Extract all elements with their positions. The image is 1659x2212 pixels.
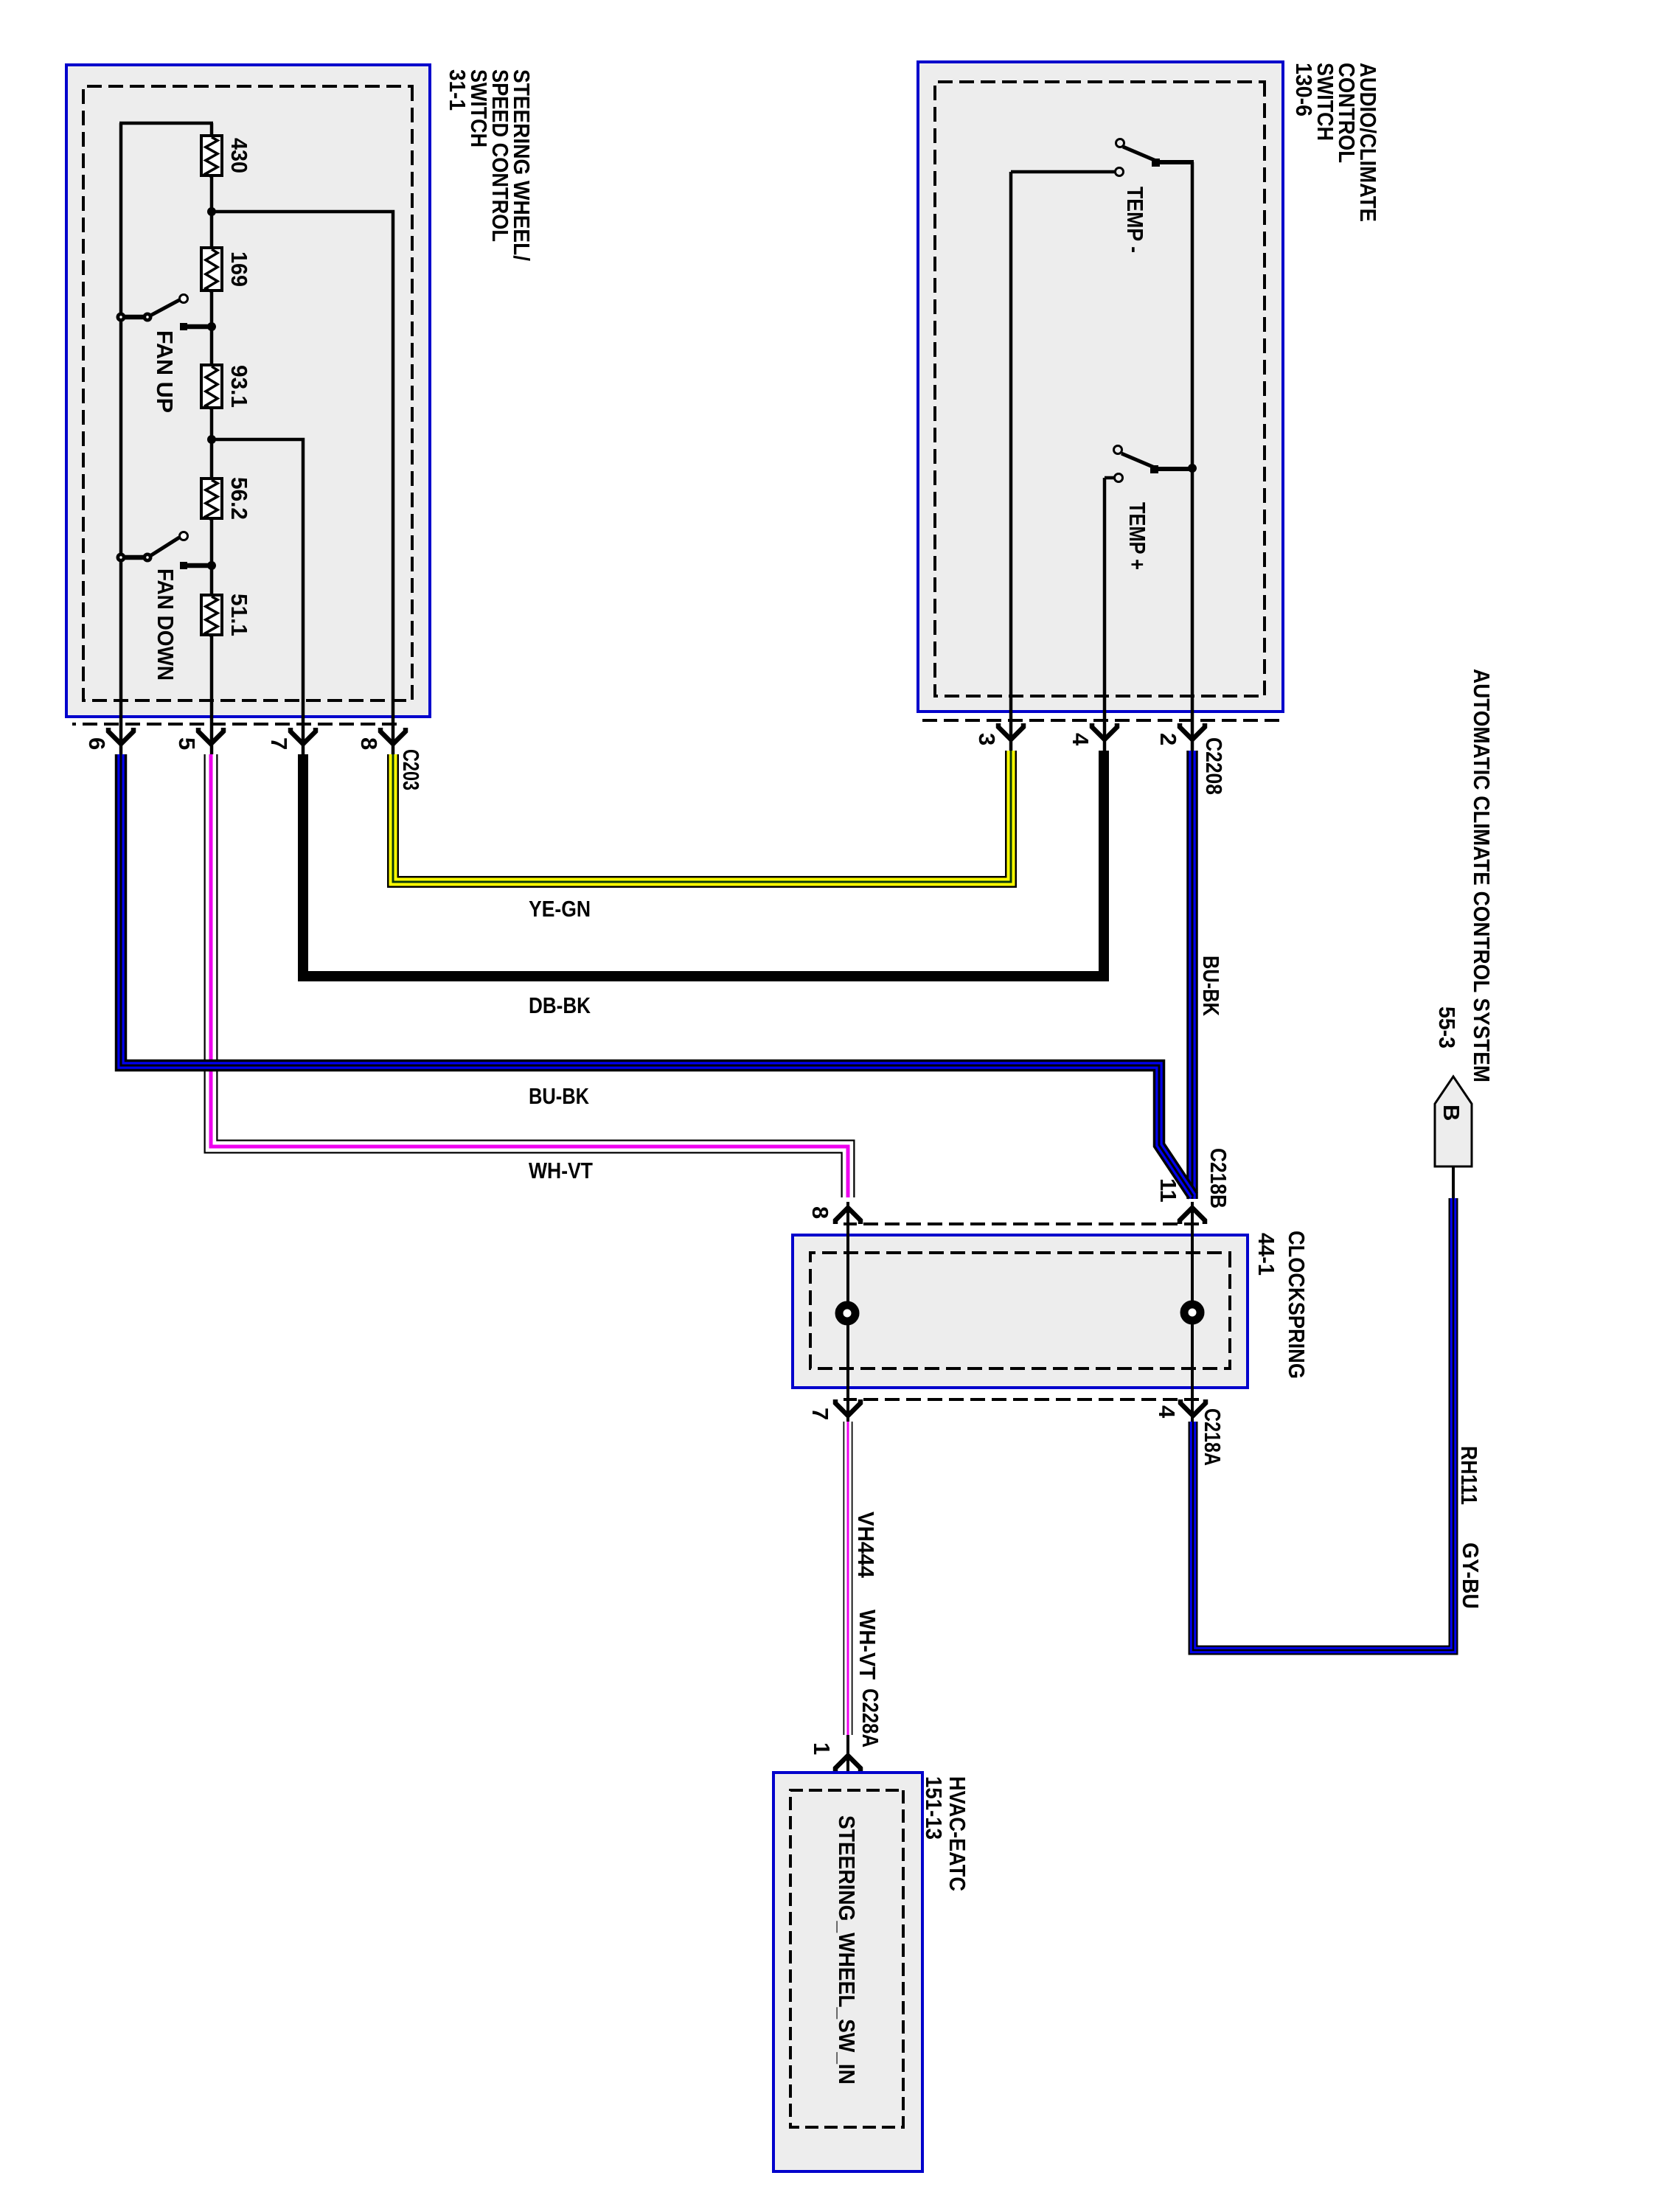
- svg-text:4: 4: [1154, 1405, 1180, 1419]
- svg-text:31-1: 31-1: [445, 69, 470, 111]
- pin 2 arrow: [1180, 723, 1205, 740]
- svg-text:169: 169: [226, 251, 252, 287]
- svg-text:FAN UP: FAN UP: [152, 330, 178, 413]
- wire: pin7 branch: [212, 439, 303, 754]
- node: junction at 430/169: [207, 207, 216, 216]
- wire through clockspring (pin 8 to pin 7): [846, 1202, 849, 1422]
- svg-text:7: 7: [266, 737, 292, 750]
- connector C203 dashed line: [72, 723, 397, 726]
- box: HVAC-EATC 151-13: [773, 1773, 970, 2171]
- svg-text:VH444: VH444: [853, 1512, 879, 1579]
- svg-text:3: 3: [974, 733, 1000, 745]
- svg-text:BU-BK: BU-BK: [529, 1083, 590, 1109]
- switch TEMP +: [1105, 446, 1197, 755]
- svg-text:WH-VT: WH-VT: [529, 1158, 593, 1183]
- node: junction at 93.1/56.2: [207, 435, 216, 444]
- wire: link rail to chain: [119, 122, 213, 125]
- pin 5 arrow: [198, 728, 223, 744]
- resistor 56.2: [201, 477, 252, 520]
- box: STEERING WHEEL/SPEED CONTROL SWITCH 31-1: [66, 65, 535, 717]
- box: CLOCKSPRING 44-1: [793, 1224, 1310, 1399]
- pin 4 arrow: [1092, 723, 1117, 740]
- wire through clockspring (pin 11 to pin 4): [1191, 1202, 1194, 1422]
- pin 1 arrow: [835, 1756, 860, 1772]
- resistor 93.1: [201, 365, 252, 409]
- svg-text:151-13: 151-13: [921, 1776, 947, 1840]
- pin 4 arrow: [1180, 1399, 1206, 1416]
- wire: pin8 branch: [212, 212, 393, 754]
- thin line to HVAC box: [846, 1735, 849, 1790]
- svg-text:C218B: C218B: [1206, 1148, 1231, 1208]
- svg-text:STEERING_WHEEL_SW_IN: STEERING_WHEEL_SW_IN: [834, 1815, 860, 2084]
- wire YE-GN: box1 pin8 to box2 pin3: [393, 751, 1011, 882]
- svg-text:7: 7: [807, 1408, 833, 1420]
- svg-text:11: 11: [1155, 1178, 1181, 1203]
- wire WH-VT VH444: clockspring pin7 to HVAC pin1: [844, 1422, 853, 1735]
- pin 11 arrow: [1180, 1208, 1205, 1224]
- svg-text:1: 1: [809, 1742, 835, 1755]
- svg-text:130-6: 130-6: [1291, 63, 1317, 116]
- wire: pin6 rail inside box1: [119, 123, 123, 754]
- wire WH-VT: box1 pin5 to clockspring pin8: [211, 754, 848, 1197]
- svg-text:430: 430: [226, 138, 252, 173]
- clockspring coil symbol (pin11/4 line): [1184, 1304, 1200, 1321]
- svg-text:FAN DOWN: FAN DOWN: [153, 568, 178, 681]
- svg-text:6: 6: [84, 737, 110, 750]
- resistor 430: [201, 136, 252, 177]
- pin 3 arrow: [998, 723, 1023, 740]
- svg-text:TEMP -: TEMP -: [1122, 187, 1148, 253]
- wire DB-BK: box1 pin7 to box2 pin4: [303, 751, 1104, 976]
- svg-text:BU-BK: BU-BK: [1198, 956, 1224, 1017]
- svg-text:B: B: [1439, 1105, 1464, 1121]
- svg-text:RH111: RH111: [1456, 1446, 1482, 1505]
- connector C2208 dashed line: [922, 719, 1279, 722]
- svg-text:C203: C203: [398, 749, 424, 790]
- svg-text:YE-GN: YE-GN: [529, 896, 591, 922]
- svg-text:GY-BU: GY-BU: [1458, 1543, 1484, 1609]
- svg-text:TEMP +: TEMP +: [1124, 502, 1150, 570]
- svg-text:55-3: 55-3: [1434, 1006, 1460, 1048]
- svg-text:WH-VT: WH-VT: [855, 1610, 880, 1680]
- switch FAN DOWN: [116, 532, 217, 681]
- box: AUDIO/CLIMATE CONTROL SWITCH 130-6: [918, 62, 1381, 712]
- svg-text:44-1: 44-1: [1253, 1233, 1279, 1276]
- svg-text:51.1: 51.1: [226, 594, 252, 636]
- svg-text:AUTOMATIC CLIMATE CONTROL SYST: AUTOMATIC CLIMATE CONTROL SYSTEM: [1469, 669, 1495, 1082]
- wire BU-BK: box2 pin2 to clockspring pin11: [1186, 751, 1198, 1199]
- svg-text:93.1: 93.1: [226, 365, 252, 408]
- svg-text:C218A: C218A: [1200, 1408, 1225, 1466]
- off-page connector B: [1435, 1077, 1472, 1200]
- resistor 51.1: [201, 594, 252, 636]
- wire: resistor chain line (pin5): [210, 123, 214, 754]
- clockspring coil symbol (pin8/7 line): [839, 1305, 855, 1321]
- svg-text:4: 4: [1068, 733, 1093, 746]
- svg-text:CLOCKSPRING: CLOCKSPRING: [1284, 1231, 1310, 1379]
- wire GY-BU: B connector to clockspring pin4: [1193, 1198, 1453, 1650]
- svg-text:5: 5: [174, 737, 200, 750]
- svg-text:C2208: C2208: [1201, 737, 1227, 795]
- svg-text:8: 8: [356, 737, 382, 750]
- svg-text:56.2: 56.2: [226, 477, 252, 520]
- pin 6 arrow: [108, 728, 133, 744]
- pin 7 arrow: [835, 1399, 860, 1416]
- svg-text:8: 8: [807, 1206, 833, 1219]
- switch FAN UP: [116, 295, 217, 414]
- wire BU-BK: box1 pin6 to clockspring pin11: [121, 754, 1193, 1196]
- switch TEMP -: [1011, 139, 1194, 755]
- svg-text:2: 2: [1155, 733, 1181, 745]
- svg-text:HVAC-EATC: HVAC-EATC: [945, 1776, 970, 1891]
- pin 7 arrow: [291, 728, 316, 744]
- pin 8 arrow: [380, 728, 406, 744]
- resistor 169: [201, 248, 252, 292]
- svg-text:C228A: C228A: [858, 1688, 883, 1747]
- pin 8 arrow: [835, 1208, 860, 1224]
- svg-text:DB-BK: DB-BK: [529, 992, 591, 1018]
